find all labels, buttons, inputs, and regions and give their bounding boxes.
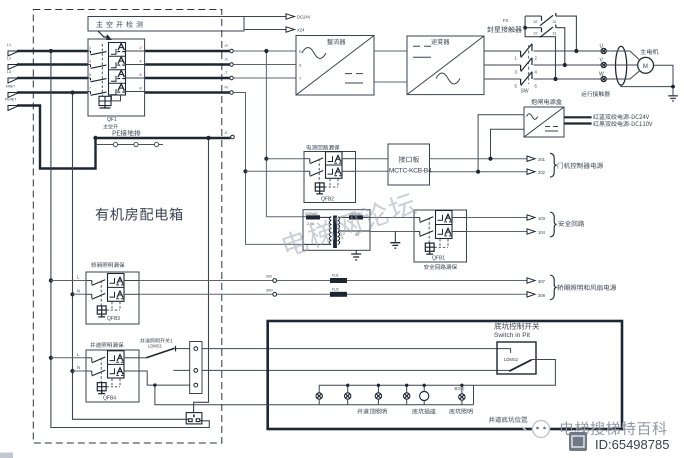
svg-text:Switch in Pit: Switch in Pit [494, 332, 530, 339]
svg-text:LDMS1: LDMS1 [148, 344, 163, 349]
svg-text:7: 7 [89, 87, 91, 91]
svg-text:FU2: FU2 [332, 287, 339, 291]
svg-text:LDMS2: LDMS2 [504, 357, 519, 362]
svg-text:104: 104 [538, 230, 546, 235]
svg-text:N: N [77, 288, 80, 293]
svg-text:1: 1 [89, 46, 91, 50]
svg-text:8: 8 [140, 87, 142, 91]
svg-text:SW: SW [521, 89, 529, 95]
svg-text:202: 202 [538, 170, 546, 175]
svg-text:30N: 30N [266, 288, 273, 292]
svg-text:QFB1: QFB1 [432, 256, 445, 262]
svg-text:201: 201 [538, 157, 546, 162]
svg-text:5: 5 [89, 73, 91, 77]
svg-text:FU1: FU1 [332, 274, 339, 278]
svg-text:QFB4: QFB4 [103, 396, 116, 402]
svg-text:32: 32 [534, 20, 538, 24]
svg-text:6: 6 [140, 73, 142, 77]
svg-text:L2: L2 [7, 57, 11, 61]
svg-text:2: 2 [140, 46, 142, 50]
svg-text:QF1: QF1 [107, 117, 117, 123]
svg-text:X24: X24 [297, 28, 305, 33]
svg-text:31: 31 [553, 20, 557, 24]
svg-text:DC24V: DC24V [297, 15, 311, 20]
svg-text:FX: FX [503, 18, 509, 23]
svg-text:-R: -R [224, 44, 228, 48]
svg-text:103: 103 [538, 216, 546, 221]
svg-text:308: 308 [538, 293, 546, 298]
svg-text:L1: L1 [7, 43, 11, 47]
svg-text:QFB3: QFB3 [107, 316, 120, 322]
svg-text:-N: -N [224, 86, 228, 90]
svg-text:-E: -E [224, 131, 228, 135]
svg-text:N: N [77, 365, 80, 370]
svg-text:21: 21 [553, 31, 557, 35]
svg-text:L3: L3 [7, 70, 11, 74]
svg-text:M: M [643, 63, 648, 70]
svg-text:MCTC-KCB-B4: MCTC-KCB-B4 [389, 168, 432, 175]
svg-text:300: 300 [266, 275, 272, 279]
svg-text:N4ET: N4ET [6, 85, 16, 89]
svg-text:ID:65498785: ID:65498785 [595, 437, 669, 452]
svg-text:4: 4 [140, 60, 142, 64]
svg-text:-S: -S [224, 58, 228, 62]
svg-text:3: 3 [89, 60, 91, 64]
svg-text:R: R [299, 50, 302, 54]
svg-text:307: 307 [538, 279, 546, 284]
svg-text:22: 22 [534, 31, 538, 35]
svg-text:PE4ET: PE4ET [5, 98, 17, 102]
svg-text:QFB2: QFB2 [321, 197, 334, 203]
